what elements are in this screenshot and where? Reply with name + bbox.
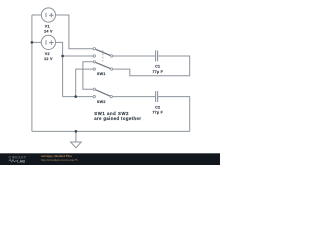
node ground junction — [75, 130, 78, 133]
capacitor C1 — [156, 50, 158, 61]
gang link (dashed) between SW1 poles — [102, 50, 104, 61]
svg-text:LAB: LAB — [17, 159, 25, 163]
svg-text:77µ F: 77µ F — [152, 70, 163, 74]
wire C1 right loop to SW1 common — [113, 56, 190, 76]
wire node A to SW1 upper pole bottom throw — [63, 55, 93, 57]
wire SW1 lower pole bottom throw to node B — [76, 69, 93, 97]
wire bottom rail — [32, 130, 190, 132]
svg-text:V2: V2 — [45, 52, 50, 56]
svg-text:htip://circuitlab.com/ce.bju75: htip://circuitlab.com/ce.bju75 — [41, 158, 78, 162]
ground — [71, 131, 82, 147]
svg-text:24 V: 24 V — [44, 30, 53, 34]
wire SW1 upper pole common to C1 — [113, 55, 156, 57]
voltage source V1 — [41, 8, 55, 22]
svg-text:SW1: SW1 — [97, 72, 106, 76]
wire SW2 common to C2 — [113, 96, 156, 98]
wire V1 right lead — [55, 15, 93, 49]
wire C2 right to bottom rail — [158, 97, 190, 132]
svg-text:are gained together: are gained together — [94, 116, 141, 121]
switch SW2 — [93, 88, 112, 98]
logo CircuitLab — [9, 154, 27, 163]
node A: V2 positive junction — [61, 55, 64, 58]
wire V2 left lead — [32, 41, 42, 43]
switch SW1 lower pole — [93, 61, 113, 71]
svg-text:V1: V1 — [45, 25, 50, 29]
wire V1 left lead — [32, 14, 42, 16]
node V2 negative junction — [31, 41, 34, 44]
svg-text:77µ F: 77µ F — [152, 111, 163, 115]
voltage source V2 — [41, 35, 55, 49]
wire V2 right lead down to node — [55, 42, 62, 96]
svg-text:C1: C1 — [155, 64, 160, 68]
wire SW1 top throw to SW2 top throw — [83, 62, 93, 89]
svg-text:12 V: 12 V — [44, 57, 53, 61]
wire node to SW2 bottom throw — [63, 96, 93, 98]
capacitor C2 — [156, 91, 158, 102]
svg-text:C2: C2 — [155, 105, 160, 109]
wire left rail — [31, 15, 33, 131]
switch SW1 upper ganged pole — [93, 48, 113, 58]
footer bar — [0, 153, 220, 165]
svg-text:SW2: SW2 — [97, 100, 106, 104]
node B: SW2 bottom throw junction — [74, 95, 77, 98]
